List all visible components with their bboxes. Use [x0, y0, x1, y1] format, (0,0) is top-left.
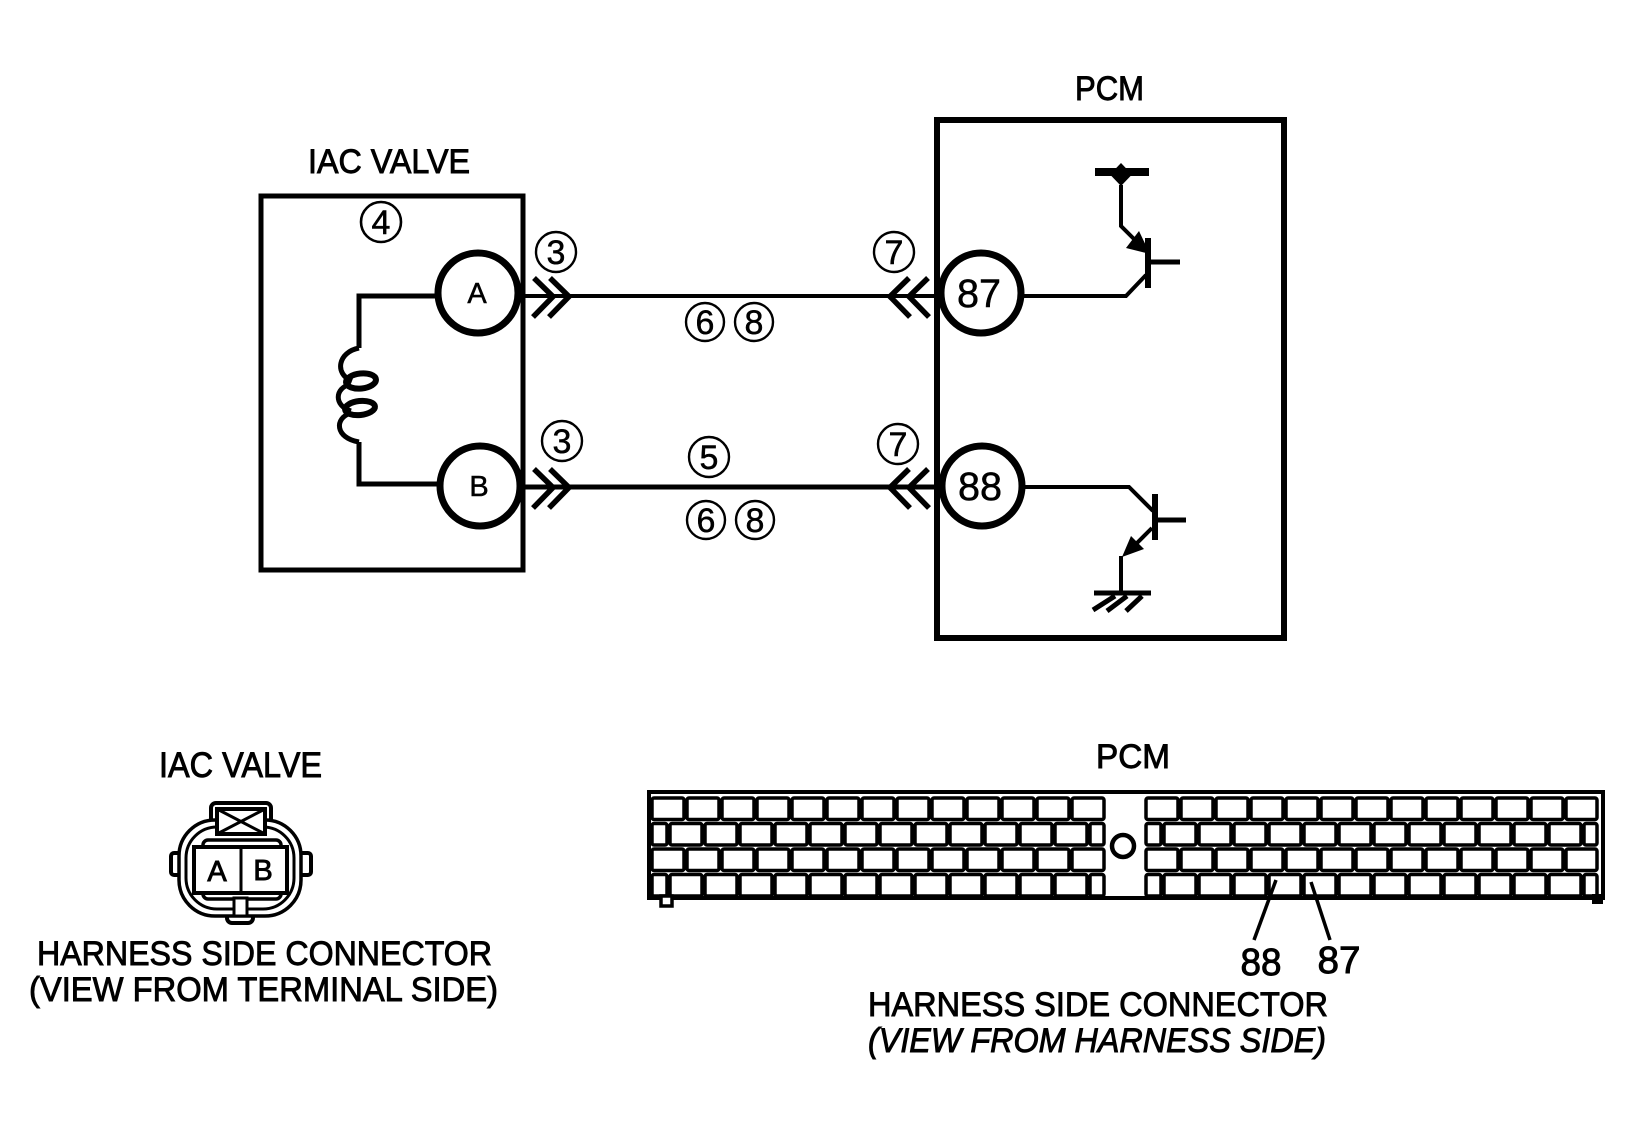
circled 8 on wire B — [736, 501, 774, 540]
chevron arrows out of A — [533, 278, 569, 317]
svg-text:PCM: PCM — [1075, 70, 1144, 108]
transistor Q2 base lead — [1158, 518, 1186, 523]
transistor Q1 base bar — [1145, 238, 1151, 288]
PCM connector pin grid left block — [652, 798, 1104, 896]
wire B to 88 — [520, 485, 938, 490]
PCM connector body — [649, 792, 1603, 898]
terminal 87 — [941, 253, 1021, 333]
IAC valve connector: outer body — [179, 820, 301, 916]
wire A to 87 — [520, 294, 938, 298]
svg-text:IAC VALVE: IAC VALVE — [159, 746, 322, 785]
svg-text:8: 8 — [745, 304, 764, 342]
svg-text:6: 6 — [697, 502, 716, 540]
svg-text:7: 7 — [885, 234, 904, 272]
IAC valve connector: top lock tab — [211, 803, 271, 835]
svg-text:8: 8 — [746, 502, 765, 540]
svg-text:HARNESS SIDE CONNECTOR: HARNESS SIDE CONNECTOR — [868, 986, 1328, 1024]
circled 3 on wire A — [536, 232, 576, 272]
svg-text:7: 7 — [889, 426, 908, 464]
transistor Q1 emitter wire from power — [1121, 185, 1138, 243]
svg-text:87: 87 — [1318, 940, 1361, 982]
terminal A — [438, 253, 518, 333]
svg-text:88: 88 — [958, 465, 1002, 509]
svg-text:A: A — [207, 856, 227, 888]
svg-text:88: 88 — [1241, 942, 1282, 984]
svg-text:B: B — [253, 855, 272, 887]
chevron arrows out of B — [533, 469, 569, 508]
circled 6 on wire B — [687, 501, 725, 540]
IAC valve connector: terminal divider — [240, 847, 243, 893]
chevron arrows into 87 — [890, 278, 929, 317]
wire from terminal A to coil — [359, 296, 440, 348]
coil L — [338, 348, 376, 442]
transistor Q2 emitter arrowhead — [1122, 536, 1144, 557]
PCM connector pin grid right block — [1146, 798, 1597, 896]
chevron arrows into 88 — [890, 469, 929, 508]
leader line to 87 — [1311, 882, 1330, 940]
svg-text:4: 4 — [372, 204, 391, 242]
svg-text:(VIEW FROM TERMINAL SIDE): (VIEW FROM TERMINAL SIDE) — [29, 971, 498, 1009]
svg-text:A: A — [467, 278, 487, 310]
svg-text:B: B — [469, 471, 488, 503]
power rail symbol — [1095, 163, 1149, 186]
svg-text:5: 5 — [700, 439, 719, 477]
PCM connector right corner mark — [1592, 894, 1603, 904]
svg-text:87: 87 — [957, 272, 1001, 316]
circled 5 on wire B — [689, 437, 729, 477]
IAC valve connector: bottom tab notch — [234, 898, 247, 916]
circled 7 on wire B — [878, 424, 918, 464]
circled 7 on wire A — [874, 232, 914, 272]
circled 3 on wire B — [542, 421, 582, 461]
svg-text:(VIEW FROM HARNESS SIDE): (VIEW FROM HARNESS SIDE) — [868, 1022, 1326, 1060]
transistor Q2 emitter wire to ground — [1128, 528, 1152, 552]
transistor Q2 collector wire from 88 — [1022, 487, 1153, 511]
circled 4 — [361, 202, 401, 242]
PCM connector left foot — [661, 896, 672, 906]
svg-text:3: 3 — [553, 423, 572, 461]
IAC valve connector: bottom tab — [227, 898, 253, 923]
transistor Q1 emitter arrowhead — [1126, 231, 1150, 254]
svg-text:IAC VALVE: IAC VALVE — [308, 143, 470, 181]
terminal 88 — [942, 446, 1022, 526]
svg-text:3: 3 — [547, 234, 566, 272]
IAC valve connector: keying box with X — [217, 809, 265, 834]
transistor Q1 base lead — [1151, 260, 1180, 265]
svg-text:PCM: PCM — [1096, 738, 1170, 776]
transistor Q1 collector wire to 87 — [1021, 275, 1146, 296]
IAC VALVE box — [261, 196, 523, 570]
IAC valve connector: inner body outline — [186, 827, 294, 909]
circled 6 on wire A — [686, 303, 724, 342]
PCM box — [937, 120, 1284, 638]
IAC valve connector: right side tab — [291, 853, 311, 875]
transistor Q2 base bar — [1152, 494, 1158, 540]
terminal B — [440, 446, 520, 526]
PCM connector center screw hole — [1112, 835, 1134, 857]
svg-text:HARNESS SIDE CONNECTOR: HARNESS SIDE CONNECTOR — [37, 935, 492, 973]
leader line to 88 — [1254, 880, 1276, 940]
ground — [1093, 593, 1151, 611]
IAC valve connector: cavity outline — [203, 840, 281, 899]
wire from coil to terminal B — [359, 442, 440, 484]
svg-text:6: 6 — [696, 304, 715, 342]
IAC valve connector: left side tab — [171, 853, 191, 875]
IAC valve connector: terminal block — [194, 847, 287, 893]
circled 8 on wire A — [735, 303, 773, 342]
